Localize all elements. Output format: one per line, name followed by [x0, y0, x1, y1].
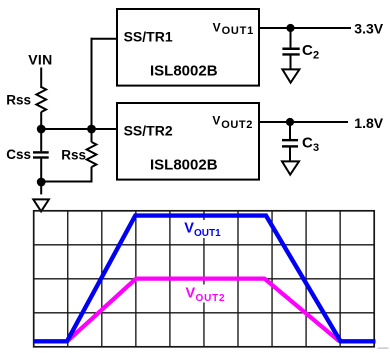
node VOUT1 junction dot — [286, 24, 294, 32]
wire VIN down to resistor Rss1 — [40, 68, 42, 89]
wire node B down to R2 — [91, 129, 93, 142]
ground symbol left — [33, 199, 49, 211]
ground symbol C2 — [282, 69, 299, 82]
svg-text:VIN: VIN — [28, 51, 52, 67]
svg-text:V: V — [186, 286, 196, 302]
svg-text:V: V — [213, 20, 221, 34]
wire node B up — [91, 38, 93, 129]
wire C3 to ground — [289, 147, 291, 161]
oscilloscope grid — [34, 211, 375, 347]
trace VOUT2 magenta — [67, 279, 340, 342]
wire VOUT1 output — [259, 27, 351, 29]
IC U2 ISL8002B (regulator block, pins SS/TR2, VOUT2) — [117, 103, 259, 180]
trace VOUT1 blue — [34, 216, 376, 342]
capacitor C3 plates — [282, 139, 298, 141]
IC U1 ISL8002B (regulator block, pins SS/TR1, VOUT1) — [117, 9, 259, 86]
wire R1 to node A — [40, 112, 42, 129]
wire C2 to ground — [290, 55, 292, 69]
artifact gray line bottom right — [378, 347, 389, 349]
svg-text:Rss: Rss — [61, 147, 86, 162]
svg-text:C: C — [302, 42, 313, 59]
capacitor Css plates — [33, 151, 49, 153]
svg-text:ISL8002B: ISL8002B — [150, 63, 218, 80]
wire R2 bottom — [91, 167, 93, 183]
svg-text:OUT2: OUT2 — [221, 119, 253, 131]
svg-text:C: C — [302, 134, 313, 151]
wire to capacitor C3 — [289, 122, 291, 139]
resistor R2 Rss zigzag — [87, 142, 97, 167]
node A junction dot — [37, 125, 46, 134]
svg-text:2: 2 — [313, 50, 319, 62]
node C junction dot — [37, 178, 46, 187]
wire to capacitor C2 — [290, 28, 292, 48]
svg-text:Rss: Rss — [6, 92, 31, 107]
svg-text:3: 3 — [313, 142, 319, 154]
wire to SS/TR2 pin — [92, 128, 118, 130]
label VOUT2 magenta — [182, 285, 230, 305]
svg-text:OUT1: OUT1 — [194, 228, 221, 239]
ground symbol C3 — [282, 161, 299, 174]
wire bottom horizontal to node C — [41, 181, 92, 183]
wire to SS/TR1 pin — [91, 38, 118, 40]
svg-text:SS/TR1: SS/TR1 — [124, 28, 173, 44]
wire node A horizontal — [41, 128, 91, 130]
node B junction dot — [87, 125, 96, 134]
svg-text:3.3V: 3.3V — [354, 21, 383, 37]
svg-text:1.8V: 1.8V — [354, 115, 383, 131]
resistor R1 Rss zigzag — [36, 87, 46, 112]
wire Css to node C — [40, 159, 42, 182]
svg-text:OUT2: OUT2 — [196, 293, 226, 304]
capacitor C2 plates — [282, 48, 299, 50]
svg-text:ISL8002B: ISL8002B — [150, 157, 218, 174]
svg-text:OUT1: OUT1 — [222, 25, 254, 37]
node VOUT2 junction dot — [286, 118, 294, 126]
svg-text:V: V — [212, 113, 220, 127]
wire VOUT2 output — [259, 121, 348, 123]
svg-text:Css: Css — [6, 147, 31, 162]
wire node C to ground — [40, 182, 42, 194]
svg-text:V: V — [184, 221, 194, 237]
wire node A down to Css — [40, 129, 42, 151]
label VOUT1 blue — [181, 220, 227, 239]
svg-text:SS/TR2: SS/TR2 — [124, 122, 173, 138]
